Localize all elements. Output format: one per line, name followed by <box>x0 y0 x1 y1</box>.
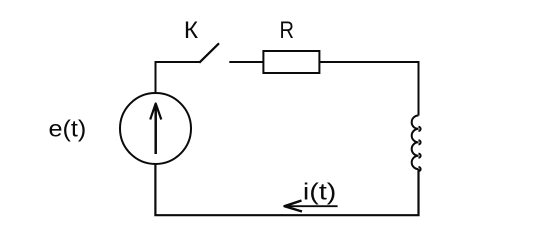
wire from switch fixed contact to resistor <box>229 61 263 63</box>
wire from resistor to top-right corner down to inductor <box>319 62 418 116</box>
source arrow head <box>150 104 161 120</box>
inductor loop cusps <box>419 127 421 171</box>
svg-text:e(t): e(t) <box>49 116 87 142</box>
svg-text:R: R <box>280 17 295 44</box>
switch K blade (open, angled) <box>199 43 219 62</box>
wire from source top to switch pivot <box>156 62 201 93</box>
current arrow i(t) head <box>285 201 303 212</box>
svg-text:i(t): i(t) <box>303 178 337 204</box>
wire from inductor bottom along bottom side up to source bottom <box>155 164 418 215</box>
current arrow i(t) shaft <box>284 205 338 207</box>
current source circle <box>120 93 191 164</box>
source arrow shaft <box>154 104 157 154</box>
svg-text:К: К <box>184 17 198 44</box>
resistor R <box>263 51 319 73</box>
inductor L (four left-bulging semicircle loops) <box>412 115 419 169</box>
